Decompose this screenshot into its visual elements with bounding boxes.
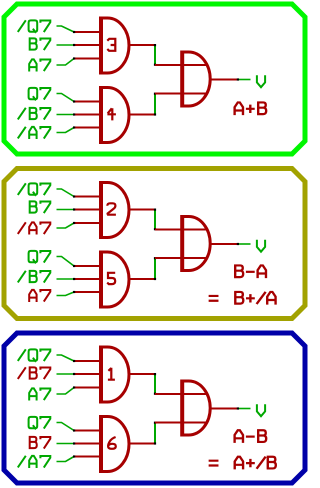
wire: green tail from label /B7 [57,278,75,280]
sheet border box: sheet 3 (A-B) [4,333,305,483]
wire: red input pin to gate [74,387,99,389]
junction bottom elbow lower [154,442,156,444]
net label V (output) [257,240,265,252]
wire: green tail from label B7 [57,44,75,46]
wire: gate 3 output [130,44,156,46]
wire: red input pin to gate [74,127,99,129]
junction at pin /B7 [73,113,75,115]
wire: green tail from label Q7 [57,423,75,431]
wire: gate 2 output [130,209,156,211]
junction top elbow upper [154,373,156,375]
junction bottom elbow lower [154,278,156,280]
net label A7 (input 6) [29,290,50,302]
junction top elbow upper [154,209,156,211]
AND gate 2 [101,181,129,239]
wire: green tail from label /A7 [57,128,75,133]
wire: output-stage gate output [210,79,237,81]
wire: green tail from label /Q7 [57,26,75,32]
AND gate 6 [101,415,129,473]
wire: output-stage gate output [210,243,237,245]
net label B7 (input 2) [29,201,51,213]
wire: green output stub to V [239,79,251,81]
junction bottom elbow upper [154,257,156,259]
gate number 2 [107,203,116,214]
wire: red input pin to gate [74,101,99,103]
wire: red input pin to gate [74,265,99,267]
wire: output-gate top input [155,393,207,395]
wire: red input pin to gate [74,291,99,293]
junction at output [237,243,239,245]
wire: red input pin to gate [74,430,99,432]
gate number 3 [107,39,115,51]
junction at pin /A7 [73,126,75,128]
net label /Q7 (input 1) [18,183,51,196]
wire: red input pin to gate [74,456,99,458]
wire: red input pin to gate [74,222,99,224]
junction at pin Q7 [73,265,75,267]
net label B7 (input 2) [29,38,51,50]
junction at pin /A7 [73,222,75,224]
wire: green vertical elbow (top) [154,210,156,230]
wire: green tail from label Q7 [57,94,75,102]
text A+B [235,102,267,115]
junction bottom elbow lower [154,113,156,115]
junction top elbow lower [154,393,156,395]
text = B+/A [209,292,276,305]
wire: output-gate top input [155,64,207,66]
net label /A7 (input 3) [18,222,51,234]
net label /B7 (input 5) [18,108,51,120]
text = A+/B [209,457,276,470]
net label /Q7 (input 1) [18,20,51,33]
wire: output-stage gate output [210,408,237,410]
junction at pin B7 [73,208,75,210]
net label /B7 (input 2) [18,367,51,379]
wire: gate 6 output [130,443,156,445]
junction at pin Q7 [73,100,75,102]
wire: output-gate top input [155,229,207,231]
junction at pin /B7 [73,278,75,280]
junction at pin /B7 [73,373,75,375]
junction at output [237,407,239,409]
wire: green tail from label /Q7 [57,189,75,197]
wire: gate 4 output [130,114,156,116]
junction top elbow lower [154,228,156,230]
wire: green vertical elbow (top) [154,45,156,65]
junction top elbow upper [154,44,156,46]
net label V (output) [257,75,265,87]
wire: red input pin to gate [74,278,99,280]
AND gate 3 [101,17,129,75]
wire: red input pin to gate [74,196,99,198]
wire: red input pin to gate [74,360,99,362]
wire: green output stub to V [239,243,251,245]
junction at pin /A7 [73,455,75,457]
wire: green tail from label B7 [57,209,75,211]
text B-A [234,265,266,278]
sheet border box: sheet 2 (B-A) [4,169,305,319]
junction at pin /Q7 [73,360,75,362]
wire: gate 1 output [130,373,156,375]
junction at pin A7 [73,386,75,388]
wire: green output stub to V [239,408,251,410]
wire: gate 5 output [130,278,156,280]
AND gate (output stage) [182,380,210,437]
wire: output-gate bottom input [155,257,207,259]
junction at pin Q7 [73,429,75,431]
net label /Q7 (input 1) [18,349,51,362]
wire: red input pin to gate [74,443,99,445]
net label A7 (input 3) [29,388,50,400]
wire: output-gate bottom input [155,93,207,95]
wire: green tail from label /Q7 [57,355,75,361]
junction top elbow lower [154,64,156,66]
wire: green vertical elbow (top) [154,374,156,394]
wire: green tail from label Q7 [57,257,75,267]
wire: green tail from label /A7 [57,223,75,228]
net label A7 (input 3) [29,59,50,71]
net label V (output) [257,404,265,416]
wire: green tail from label A7 [57,388,75,395]
junction at pin /Q7 [73,31,75,33]
AND gate 1 [101,346,129,404]
wire: green tail from label A7 [57,59,75,66]
wire: green tail from label /B7 [57,114,75,116]
wire: green tail from label A7 [57,292,75,296]
gate number 5 [107,273,115,284]
junction at pin B7 [73,44,75,46]
wire: green tail from label /A7 [57,457,75,462]
wire: red input pin to gate [74,31,99,33]
net label /A7 (input 6) [18,127,51,139]
wire: red input pin to gate [74,373,99,375]
junction at pin A7 [73,291,75,293]
wire: green vertical elbow (bottom) [154,94,156,115]
net label /A7 (input 6) [18,456,51,468]
junction bottom elbow upper [154,422,156,424]
wire: red input pin to gate [74,209,99,211]
gate number 1 [108,368,115,380]
wire: red input pin to gate [74,44,99,46]
gate number 4 [107,108,116,120]
net label B7 (input 5) [29,437,51,449]
junction at pin B7 [73,442,75,444]
junction at pin /Q7 [73,195,75,197]
sheet border box: sheet 1 (A+B) [4,4,305,154]
junction at output [237,78,239,80]
AND gate (output stage) [182,51,210,108]
wire: red input pin to gate [74,114,99,116]
text A-B [235,430,267,443]
wire: green tail from label B7 [57,443,75,445]
wire: green vertical elbow (bottom) [154,423,156,444]
wire: green vertical elbow (bottom) [154,258,156,279]
AND gate (output stage) [182,215,210,272]
gate number 6 [108,437,116,449]
junction at pin A7 [73,57,75,59]
wire: green tail from label /B7 [57,373,75,375]
wire: red input pin to gate [74,58,99,60]
net label /B7 (input 5) [18,271,51,283]
net label Q7 (input 4) [29,251,51,264]
AND gate 4 [101,86,129,144]
net label Q7 (input 4) [29,88,51,101]
AND gate 5 [101,251,129,309]
wire: output-gate bottom input [155,422,207,424]
junction bottom elbow upper [154,93,156,95]
net label Q7 (input 4) [29,417,51,430]
